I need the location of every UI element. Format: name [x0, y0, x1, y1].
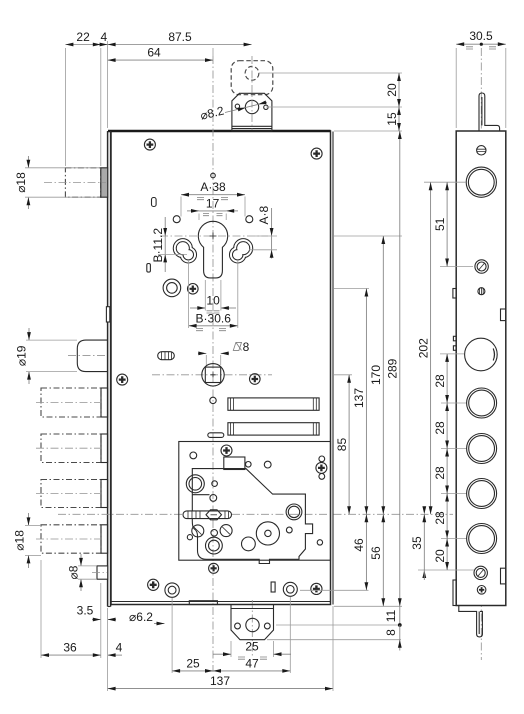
hole A left — [173, 216, 180, 223]
svg-text:17: 17 — [206, 197, 220, 211]
gearbox bottom screw — [209, 563, 219, 573]
rack bar (hatched) — [183, 510, 232, 520]
dim 46 — [352, 514, 368, 590]
dim B11.2 — [151, 217, 187, 272]
svg-text:B·30.6: B·30.6 — [196, 311, 232, 325]
svg-text:B·11.2: B·11.2 — [151, 228, 165, 263]
svg-text:15: 15 — [385, 112, 399, 126]
svg-text:35: 35 — [410, 536, 424, 550]
dim 22 — [65, 30, 100, 46]
gearbox case — [179, 442, 331, 561]
deadbolts (phantom thrown) with stubs — [41, 388, 108, 553]
gearbox screw top — [221, 445, 232, 456]
tiny hole mid — [211, 530, 218, 537]
dim 17 — [187, 197, 238, 221]
bottom fixing hole 6.2 right — [283, 582, 297, 596]
hole 8.2 in top bracket — [235, 100, 268, 113]
svg-text:⌀6.2: ⌀6.2 — [129, 610, 153, 624]
standoff right — [220, 525, 232, 537]
case screw mid-right — [250, 374, 261, 385]
svg-text:22: 22 — [76, 30, 90, 44]
bracket hole center — [246, 618, 259, 631]
dim 15 right top — [385, 107, 401, 131]
small hole near boss — [212, 481, 218, 487]
gearbox hole top-left — [190, 452, 197, 459]
dim 64 — [108, 46, 213, 62]
side small screw — [478, 288, 485, 295]
main vertical centerline (cylinder axis) — [212, 56, 214, 672]
dim 87.5 — [108, 30, 252, 46]
dim 289 — [386, 131, 402, 606]
faceplate cutout — [106, 307, 109, 322]
dim 11 — [384, 606, 402, 627]
dim 25 left — [172, 656, 213, 672]
ext lines 20 15 — [259, 73, 402, 131]
svg-text:170: 170 — [369, 365, 383, 385]
bushing left (follower bearing) — [163, 279, 181, 297]
bottom screw right — [311, 583, 322, 594]
tiny hole left — [187, 535, 192, 540]
svg-text:30.5: 30.5 — [469, 29, 493, 43]
pivot — [210, 495, 217, 502]
dim 8 bottom right — [384, 625, 402, 651]
cam double circle — [286, 504, 302, 520]
dim 4 bottom — [108, 641, 123, 658]
gearbox tab — [224, 457, 245, 470]
dim 51 — [433, 182, 449, 266]
ext lines bottom dims — [108, 597, 333, 691]
dim 20 side — [433, 539, 449, 571]
follower horizontal centerline — [152, 374, 272, 376]
small slot left — [147, 264, 151, 273]
keeper rect — [271, 582, 275, 592]
side left tick a — [453, 336, 456, 341]
side slotted screw 3 — [474, 566, 487, 579]
svg-text:A·38: A·38 — [200, 180, 226, 194]
ext lines side dims — [418, 182, 474, 570]
top bolt centerline — [44, 182, 106, 184]
dim 4 top — [100, 30, 108, 46]
side bottom hook — [459, 606, 483, 637]
side slotted screw 2 — [475, 260, 488, 273]
side left tab — [453, 289, 456, 299]
tiny hole far right — [317, 540, 322, 545]
latch centerline — [68, 355, 107, 357]
label diam 8.2 — [199, 101, 267, 123]
dim 170 — [369, 236, 385, 514]
dim 85 — [335, 375, 351, 515]
bottom mounting bracket — [231, 605, 274, 640]
spring roller (hatched oval) — [158, 352, 175, 360]
svg-text:A·8: A·8 — [257, 206, 271, 225]
dim 137 right — [352, 289, 368, 515]
side left tab bottom — [453, 580, 456, 606]
top bolt (phantom thrown) — [65, 168, 100, 197]
top bolt stub — [101, 168, 108, 197]
side slotted screw top — [477, 146, 486, 155]
dim 3.5 — [77, 604, 116, 622]
svg-text:4: 4 — [100, 30, 107, 44]
gearbox hole b — [264, 461, 271, 468]
dim 28 c — [433, 449, 449, 494]
bottom edge tab — [189, 601, 217, 605]
dim 28 b — [433, 403, 449, 449]
bottom fixing hole 6.2 left — [165, 583, 179, 597]
fixing hole B left (pear) — [173, 239, 196, 263]
top mounting tab (phantom, extended) — [231, 61, 273, 95]
ext lines bottom left — [41, 560, 101, 658]
gearbox hole a — [246, 462, 252, 468]
gearbox right hole bottom — [319, 474, 325, 480]
faceplate (forend strip) — [108, 131, 111, 607]
svg-text:28: 28 — [433, 421, 447, 435]
svg-text:289: 289 — [386, 358, 400, 378]
dim square 8 — [198, 340, 250, 365]
handle height centerline — [58, 513, 453, 515]
hole right of gear — [286, 527, 292, 533]
slot upper (transmission) — [228, 398, 319, 410]
dim A38 — [181, 180, 245, 200]
side cross screw — [477, 586, 486, 595]
case screw mid-left — [117, 374, 128, 385]
dim 202 — [416, 182, 432, 514]
pin boss left — [186, 475, 204, 493]
dim 47 — [213, 656, 290, 672]
dim 30.5 — [456, 29, 506, 128]
side view body — [456, 131, 506, 606]
dim 20 right top — [385, 73, 401, 107]
bracket hole right — [264, 623, 270, 629]
gear small — [242, 537, 256, 551]
dim 28 d — [433, 494, 449, 539]
svg-text:10: 10 — [206, 294, 220, 308]
gear wheel big — [256, 522, 279, 545]
svg-text:⌀18: ⌀18 — [13, 530, 27, 551]
svg-text:28: 28 — [433, 374, 447, 388]
svg-text:202: 202 — [416, 338, 430, 358]
deadbolt centerlines — [36, 403, 100, 540]
gearbox right screw — [316, 462, 327, 473]
gearbox plate outline — [192, 469, 312, 564]
side top hook — [479, 93, 500, 131]
gearbox right hole top — [319, 456, 325, 462]
dim B30.6 — [189, 261, 238, 331]
side bolt holes 18 (x4) — [467, 388, 497, 554]
dim diam8 bottom-left — [67, 554, 96, 591]
svg-text:36: 36 — [63, 641, 77, 655]
svg-text:28: 28 — [433, 511, 447, 525]
side hole latch (19) — [465, 338, 498, 371]
svg-text:8: 8 — [243, 340, 250, 354]
dim 25 bracket — [213, 640, 291, 660]
slot lower (transmission) — [228, 423, 319, 435]
side left tick b — [453, 346, 456, 351]
svg-text:25: 25 — [245, 640, 259, 654]
latch bolt — [77, 340, 107, 372]
dim diam18 top — [14, 156, 100, 209]
dim 10 — [190, 280, 236, 313]
ext lines A38 — [181, 197, 245, 217]
small slot upper-left — [152, 198, 157, 207]
svg-text:25: 25 — [186, 656, 200, 670]
svg-text:46: 46 — [352, 538, 366, 552]
svg-text:⌀18: ⌀18 — [14, 172, 28, 193]
svg-text:51: 51 — [433, 217, 447, 231]
dim 36 — [41, 641, 101, 657]
label diam 6.2 — [129, 610, 164, 625]
bracket hole left — [235, 623, 241, 629]
dim 56 — [369, 514, 385, 606]
lock case body (front view) — [108, 131, 333, 605]
svg-text:4: 4 — [116, 641, 123, 655]
svg-text:47: 47 — [245, 656, 259, 670]
dim 28 a — [433, 354, 449, 403]
svg-text:64: 64 — [147, 46, 161, 60]
euro cylinder profile — [198, 221, 227, 278]
small hole below follower — [210, 397, 216, 403]
svg-text:20: 20 — [433, 549, 447, 563]
svg-text:56: 56 — [369, 546, 383, 560]
side hole top (bolt 18) — [466, 167, 496, 197]
bracket vertical centerline bottom — [251, 600, 253, 656]
auxiliary pin (bottom left) — [92, 566, 108, 579]
dim A8 — [249, 206, 277, 259]
svg-text:⌀19: ⌀19 — [15, 345, 29, 366]
svg-text:8: 8 — [384, 629, 398, 636]
ext lines top dims — [65, 41, 213, 166]
side right tab — [501, 309, 506, 321]
svg-text:11: 11 — [384, 609, 398, 622]
bottom screw left — [148, 579, 159, 590]
svg-text:20: 20 — [385, 83, 399, 97]
small hole above cylinder — [211, 173, 216, 178]
bolt drive ring — [206, 537, 223, 554]
stop pill — [208, 433, 224, 438]
bracket vertical centerline top — [251, 56, 253, 130]
screw near bushing — [188, 284, 199, 295]
spindle follower — [202, 364, 224, 386]
standoff left — [192, 525, 204, 537]
svg-text:3.5: 3.5 — [77, 604, 94, 618]
side right tab bottom — [501, 568, 506, 584]
case screw top-left — [144, 139, 155, 150]
svg-text:28: 28 — [433, 466, 447, 480]
hole A right — [246, 216, 253, 223]
dim diam19 — [15, 328, 77, 384]
svg-text:137: 137 — [352, 388, 366, 408]
dim diam18 bottom — [13, 513, 42, 568]
svg-text:⌀8: ⌀8 — [67, 565, 81, 579]
cylinder horizontal centerline — [160, 235, 268, 237]
dim 137 bottom — [108, 674, 333, 690]
svg-text:137: 137 — [210, 674, 230, 688]
top mounting bracket — [232, 93, 272, 131]
ext lines right col — [267, 236, 402, 640]
svg-text:85: 85 — [335, 438, 349, 452]
case screw top-right — [311, 148, 322, 159]
dim 35 — [410, 506, 426, 580]
side view vertical centerline — [480, 48, 482, 660]
fixing hole B right (pear) — [230, 239, 253, 263]
svg-text:87.5: 87.5 — [168, 30, 192, 44]
